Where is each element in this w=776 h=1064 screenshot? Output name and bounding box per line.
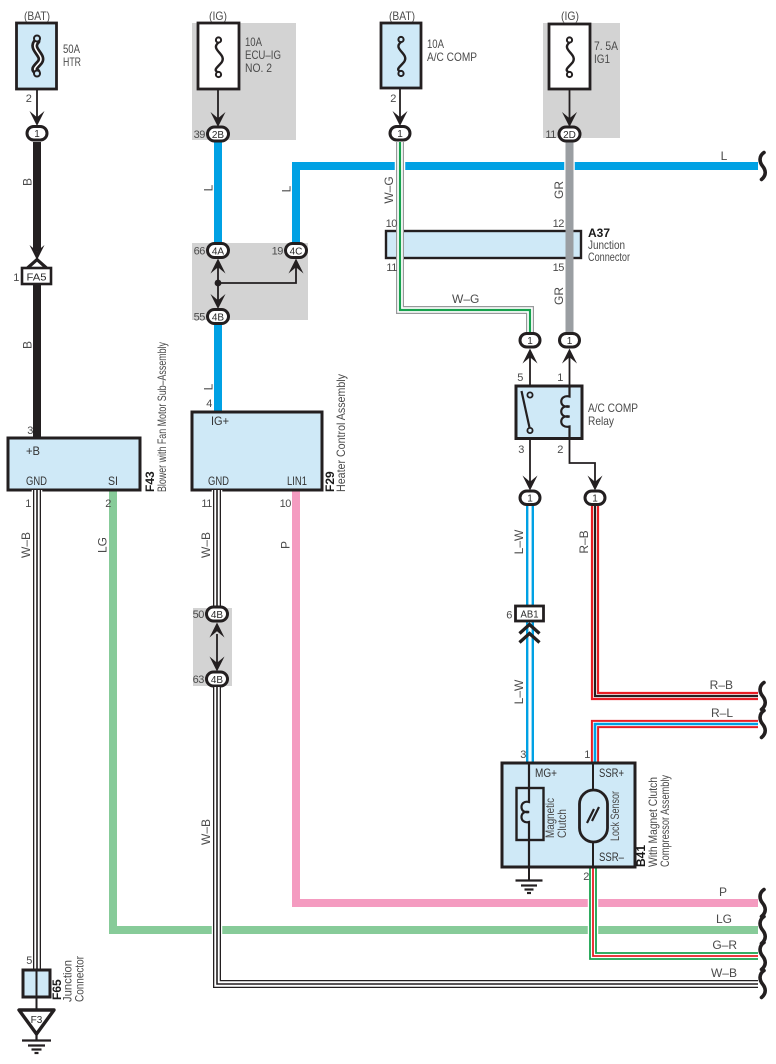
junction block shading (IG1 fuse) [543,23,620,138]
svg-text:3: 3 [520,749,526,761]
svg-text:AB1: AB1 [521,610,539,621]
svg-text:Connector: Connector [73,956,87,1002]
break symbol wire L [760,153,765,180]
svg-text:FA5: FA5 [27,273,47,284]
wire B upper segment [33,142,41,251]
svg-text:(BAT): (BAT) [24,9,50,23]
connector oval 1 [390,127,410,141]
wire R-B (relay to right edge) [595,506,758,696]
wire LG (F43 SI to right edge) [113,490,758,930]
svg-text:2: 2 [557,444,563,456]
svg-text:SSR+: SSR+ [599,766,624,780]
wire R-L (right edge to compressor) [595,724,758,763]
chevrons below AB1 [520,625,540,643]
junction connector A37 [386,231,581,258]
wire fuse to 2D [569,89,571,119]
internal wire MG+ with clutch coil [517,788,544,840]
internal link wire [216,634,218,663]
wire G-R (compressor to right edge) [593,867,758,956]
svg-text:R–L: R–L [711,706,733,720]
svg-text:G–R: G–R [712,938,737,952]
lock sensor pill [580,790,608,842]
chevron above FA5 [28,260,47,269]
svg-text:1: 1 [557,372,563,384]
svg-text:GND: GND [26,474,47,488]
junction block internal wiring 4A-4C-4B [218,266,296,302]
break W-B [760,971,765,998]
svg-text:2B: 2B [212,130,225,141]
svg-text:B: B [21,341,35,349]
svg-text:63: 63 [193,674,205,686]
relay coil [561,386,569,438]
svg-text:4C: 4C [290,247,303,258]
connector oval 1 (relay pin1 side) [562,349,577,364]
junction connector F65 [23,970,50,997]
fuse 10A ECU-IG box [198,23,239,89]
wire W-G down through A37 and over to relay [400,142,530,334]
connector AB1 [516,606,544,621]
wire to ground triangle [36,997,38,1010]
svg-text:15: 15 [553,262,565,274]
connector oval 4B (63) [207,672,228,686]
fuse 7.5A IG1 box [549,24,590,89]
svg-text:IG1: IG1 [594,52,610,66]
svg-text:(IG): (IG) [209,9,227,23]
svg-text:10A: 10A [427,37,444,51]
svg-text:4A: 4A [212,247,225,258]
wire to relay pin 5 [529,355,531,392]
svg-text:LG: LG [96,537,110,553]
dart into FA5 [30,245,45,260]
connector oval 4A [208,244,229,258]
connector oval 2D [559,127,580,141]
svg-text:4: 4 [206,398,212,410]
ground wire below clutch [528,867,530,880]
connector oval 1 (relay pin5 side) [523,349,538,364]
connector oval 2B [208,127,229,141]
svg-text:10A: 10A [245,35,262,49]
connector oval 4B (50) [210,623,225,638]
ground triangle F3 [19,1010,54,1034]
svg-text:A/C COMP: A/C COMP [588,401,638,415]
svg-text:39: 39 [194,129,206,141]
fuse 10A A/C COMP box [381,23,421,88]
svg-text:1: 1 [584,749,590,761]
wire relay pin3 to connector [529,440,531,483]
svg-text:2: 2 [105,498,111,510]
svg-text:HTR: HTR [63,55,81,69]
svg-text:1: 1 [25,498,31,510]
svg-text:LG: LG [716,912,732,926]
svg-text:L: L [280,185,294,192]
relay switch contact [522,391,533,433]
svg-text:LIN1: LIN1 [287,474,307,488]
svg-text:Relay: Relay [588,414,614,428]
wire relay pin2 to connector [570,440,596,483]
fuse element 10A [216,37,223,77]
svg-text:GR: GR [552,181,566,199]
blower box F43 [8,438,140,490]
svg-text:11: 11 [201,498,212,510]
wire L-W [526,506,534,763]
svg-text:66: 66 [194,246,206,258]
svg-text:(IG): (IG) [561,9,579,23]
internal wire lock sensor [592,764,594,866]
svg-text:W–B: W–B [199,532,213,558]
svg-text:R–B: R–B [710,678,733,692]
svg-text:1: 1 [567,336,573,347]
compressor box B41 [502,763,635,867]
dart down into 4B [211,294,226,309]
svg-text:2: 2 [583,871,589,883]
svg-text:7. 5A: 7. 5A [594,39,618,53]
break G-R [760,943,765,970]
svg-text:L–W: L–W [512,529,526,554]
connector oval 4B [208,310,229,324]
wire L (2B to 4A) [214,143,222,246]
wire W-B from F29 GND upper [212,490,223,609]
wire L (4B to F29) [214,325,222,412]
svg-text:IG+: IG+ [211,414,229,428]
svg-text:W–B: W–B [19,532,33,558]
connector oval 4C [286,244,307,258]
junction block shading (ECU-IG fuse) [192,23,296,140]
break R-L [760,711,765,738]
heater control box F29 [192,412,322,490]
fuse 50A HTR box [17,23,57,89]
wire W-G over A37 [396,229,404,260]
relay box [516,386,582,439]
wire GR over A37 [566,229,574,260]
svg-text:19: 19 [272,246,284,258]
junction dot [215,280,222,287]
svg-text:5: 5 [26,955,32,967]
junction block shading (50/63 4B) [193,608,232,686]
svg-text:Connector: Connector [588,250,630,264]
svg-text:50: 50 [193,609,205,621]
svg-text:R–B: R–B [577,530,591,553]
svg-text:GR: GR [552,287,566,305]
connector oval 1 [27,127,47,141]
fuse element 7.5A [567,37,574,77]
wire W-B from F43 GND [32,490,43,970]
svg-text:2: 2 [26,93,32,105]
svg-text:MG+: MG+ [535,766,557,780]
wire fuse to 2B [217,89,219,119]
svg-text:W–G: W–G [452,292,479,306]
svg-text:P: P [719,885,727,899]
wire fuse to connector [36,89,38,118]
svg-text:F3: F3 [31,1015,43,1026]
dart down into 4B (63) [210,657,225,672]
ground symbol [516,881,543,894]
svg-text:11: 11 [386,262,397,274]
dart up into 4A [211,259,226,274]
wire to relay pin 1 [569,355,571,390]
wire fuse to connector [399,88,401,118]
svg-text:L: L [202,184,216,191]
svg-text:SI: SI [108,474,118,488]
connector FA5 [22,268,51,284]
fusible link element 50A [34,36,41,77]
wire P (F29 LIN1 to right edge) [296,490,758,903]
svg-text:+B: +B [26,444,40,458]
svg-text:2D: 2D [563,130,576,141]
svg-text:50A: 50A [63,42,80,56]
wire W-B from 4B down [217,687,758,984]
svg-text:L: L [721,149,728,163]
svg-text:4B: 4B [211,610,224,621]
svg-text:B: B [21,178,35,186]
svg-text:Lock Sensor: Lock Sensor [608,791,622,841]
wire B lower segment [33,284,41,438]
svg-text:NO. 2: NO. 2 [245,61,272,75]
svg-text:11: 11 [545,129,556,141]
svg-text:4B: 4B [211,675,224,686]
svg-text:3: 3 [518,444,524,456]
dart into connector 1 [30,111,45,126]
svg-text:4B: 4B [212,313,225,324]
dart into connector 1 [393,111,408,126]
svg-text:L: L [202,383,216,390]
svg-text:(BAT): (BAT) [389,9,415,23]
svg-text:Heater Control Assembly: Heater Control Assembly [334,374,348,492]
svg-text:W–B: W–B [199,819,213,845]
svg-text:SSR–: SSR– [599,850,624,864]
break P [760,890,765,917]
svg-text:GND: GND [208,474,229,488]
dart up into 4C [289,259,304,274]
break LG [760,917,765,944]
svg-text:P: P [279,541,293,549]
connector oval 1 (R-B) [585,491,605,505]
fuse element 10A [398,37,405,76]
svg-text:W–B: W–B [711,966,737,980]
svg-text:10: 10 [386,218,398,230]
svg-text:ECU–IG: ECU–IG [245,48,281,62]
wire GR down to relay [564,143,575,335]
svg-text:1: 1 [527,336,533,347]
svg-text:1: 1 [592,494,598,505]
dart into 2B [211,112,226,127]
connector oval 1 (L-W) [520,491,540,505]
svg-text:6: 6 [506,610,512,622]
svg-text:1: 1 [397,129,403,140]
svg-text:2: 2 [390,93,396,105]
svg-text:L–W: L–W [512,679,526,704]
junction block shading (4A/4B/4C) [192,243,308,320]
ground symbol [22,1034,51,1053]
dart into 2D [562,112,577,127]
svg-text:W–G: W–G [382,176,396,203]
svg-text:1: 1 [527,494,533,505]
svg-text:A/C COMP: A/C COMP [427,50,477,64]
svg-text:Blower with Fan Motor Sub–Asse: Blower with Fan Motor Sub–Assembly [155,342,169,492]
svg-text:55: 55 [194,312,206,324]
wire L (4C to right edge) [296,166,758,246]
svg-text:3: 3 [27,425,33,437]
svg-text:12: 12 [553,218,565,230]
break R-B [760,683,765,710]
svg-text:Clutch: Clutch [555,809,569,838]
svg-text:5: 5 [517,372,523,384]
svg-text:Compressor Assembly: Compressor Assembly [658,775,672,867]
svg-text:1: 1 [34,129,40,140]
svg-text:1: 1 [13,272,19,284]
svg-text:10: 10 [280,498,292,510]
